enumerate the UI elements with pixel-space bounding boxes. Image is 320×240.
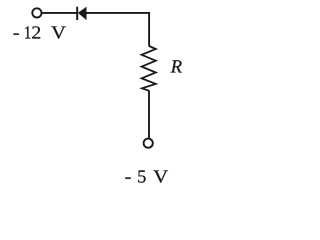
label R value (italic): [171, 60, 182, 72]
wire from diode to top-right corner: [86, 12, 150, 14]
wire corner down to resistor top: [148, 12, 150, 46]
diode D1 anode triangle (pointing left): [78, 7, 86, 20]
label "- 12 V" for T1: [14, 26, 66, 38]
resistor R zigzag: [142, 46, 156, 91]
wire from resistor bottom to terminal T2: [148, 91, 150, 139]
label "- 5 V" for T2: [125, 170, 168, 182]
wire from T1 to diode cathode: [42, 12, 77, 14]
terminal T1 (-12V input, open circle): [32, 8, 41, 17]
diode D1 cathode bar: [76, 7, 78, 20]
terminal T2 (-5V, open circle): [144, 139, 153, 148]
